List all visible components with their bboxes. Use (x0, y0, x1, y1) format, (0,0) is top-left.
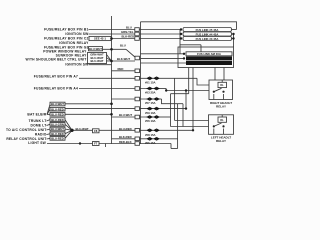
svg-text:DL: DL (220, 119, 224, 122)
svg-text:#56 10A: #56 10A (145, 119, 156, 123)
svg-text:FUSE/RELAY BOX PIN C2: FUSE/RELAY BOX PIN C2 (44, 37, 88, 41)
svg-text:BLU-RED: BLU-RED (51, 132, 64, 136)
svg-text:W/TH SHOULDER BELT CTRL UNIT: W/TH SHOULDER BELT CTRL UNIT (26, 58, 87, 62)
svg-text:BLU-WHT: BLU-WHT (51, 102, 64, 106)
svg-text:RELAY: RELAY (216, 104, 226, 108)
svg-text:#53 25A: #53 25A (145, 91, 156, 95)
svg-text:BLU-RED: BLU-RED (51, 137, 64, 141)
svg-text:BLU-WHT: BLU-WHT (76, 127, 89, 131)
svg-text:BLU-RED: BLU-RED (51, 113, 64, 117)
svg-text:TRUNK LT: TRUNK LT (29, 119, 47, 123)
svg-text:FUS LINK #5 45A: FUS LINK #5 45A (196, 28, 219, 32)
svg-text:#59 10A: #59 10A (145, 111, 156, 115)
svg-text:BLK-WHT: BLK-WHT (117, 57, 130, 61)
svg-text:SEE 42-1: SEE 42-1 (94, 37, 106, 41)
svg-text:TO A/C CONTROL UNIT: TO A/C CONTROL UNIT (6, 128, 47, 132)
svg-text:RELAY: RELAY (216, 139, 226, 143)
svg-text:FUS LINK #3 45A: FUS LINK #3 45A (196, 37, 219, 41)
svg-text:IGNITION SW: IGNITION SW (65, 63, 89, 67)
svg-text:FUS LINK #4 45A: FUS LINK #4 45A (196, 32, 219, 36)
svg-text:#58 15A: #58 15A (145, 133, 156, 137)
svg-text:BAT ELB/R: BAT ELB/R (27, 113, 47, 117)
svg-text:IGNITION SW: IGNITION SW (65, 32, 89, 36)
svg-text:BLU-RED: BLU-RED (51, 107, 64, 111)
svg-text:FUSE/RELAY BOX PIN A7: FUSE/RELAY BOX PIN A7 (34, 75, 78, 79)
svg-text:#57 15A: #57 15A (145, 101, 156, 105)
svg-text:FUS-LINK #2 30A: FUS-LINK #2 30A (198, 61, 221, 65)
svg-text:DOME LT: DOME LT (31, 124, 47, 128)
svg-text:BLK-RED: BLK-RED (122, 35, 135, 39)
svg-text:BLK-RED: BLK-RED (119, 135, 132, 139)
svg-text:F8: F8 (94, 129, 98, 133)
svg-text:RED-BLK: RED-BLK (119, 140, 132, 144)
svg-text:FUS-LINK #3 40A: FUS-LINK #3 40A (198, 57, 221, 61)
svg-text:FUSE/RELAY BOX PIN B1: FUSE/RELAY BOX PIN B1 (44, 28, 88, 32)
svg-text:BLU-WHT: BLU-WHT (119, 113, 132, 117)
svg-text:BLU: BLU (120, 44, 126, 48)
svg-text:BLU-GRN: BLU-GRN (51, 123, 64, 127)
svg-text:BLU-RED: BLU-RED (51, 118, 64, 122)
svg-text:FUS LINK AM 30A: FUS LINK AM 30A (197, 52, 221, 56)
svg-text:RADIO: RADIO (35, 133, 47, 137)
svg-text:BLU-WHT: BLU-WHT (51, 127, 64, 131)
svg-text:LIGHT SW: LIGHT SW (28, 141, 46, 145)
svg-text:F7: F7 (94, 142, 98, 146)
svg-text:BLU: BLU (126, 26, 132, 30)
svg-text:#55 15A: #55 15A (145, 141, 156, 145)
svg-text:BLU-WHT: BLU-WHT (90, 59, 103, 63)
svg-text:DL: DL (220, 84, 224, 87)
svg-text:BLU-WHT: BLU-WHT (89, 47, 102, 51)
svg-text:GRN-YEL: GRN-YEL (121, 30, 134, 34)
svg-text:BLU-RED: BLU-RED (119, 127, 132, 131)
svg-text:FUSE/RELAY BOX PIN A4: FUSE/RELAY BOX PIN A4 (34, 87, 78, 91)
svg-text:RED: RED (118, 67, 124, 71)
svg-text:#51 15A: #51 15A (145, 81, 156, 85)
